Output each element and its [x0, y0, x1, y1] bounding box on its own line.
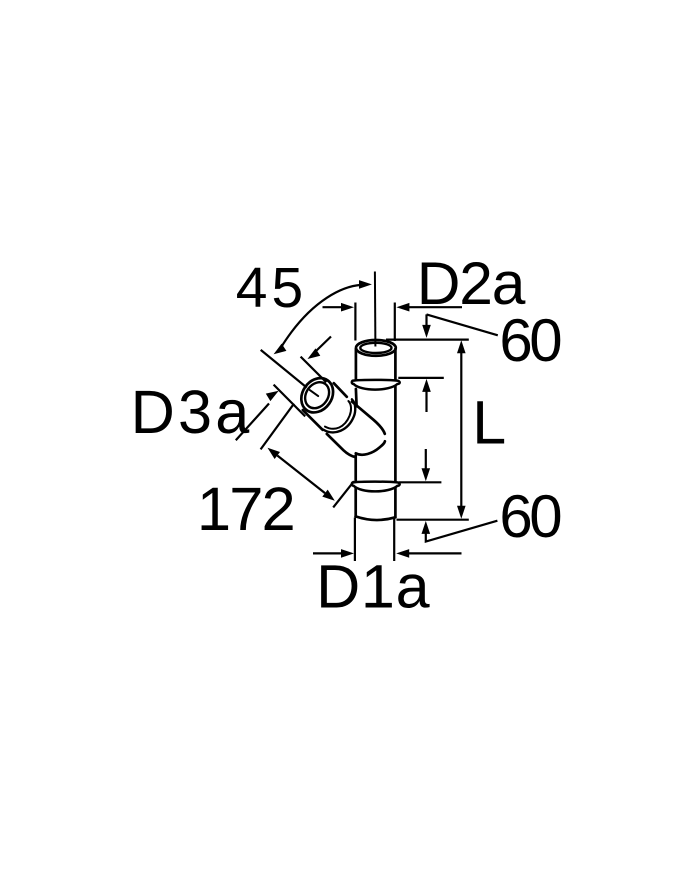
svg-text:L: L [472, 389, 506, 457]
main pipe left edge lower segment [354, 456, 357, 517]
172 upper arrowhead pointing up-left [268, 448, 281, 459]
D3a upper extension line [301, 357, 327, 383]
D1a right extension line [393, 519, 395, 562]
60 top upper arrow shaft and leader [427, 314, 498, 335]
D3a lower extension line B [274, 385, 306, 417]
D1a right arrowhead pointing left [396, 549, 409, 558]
top collar band [352, 380, 400, 390]
svg-text:60: 60 [499, 483, 561, 550]
junction weld smile curve [356, 441, 385, 454]
main pipe left edge upper segment [355, 349, 358, 407]
60 bottom lower arrow shaft and leader [426, 521, 498, 542]
svg-text:60: 60 [499, 307, 561, 374]
svg-text:172: 172 [197, 475, 294, 544]
main pipe top opening inner ellipse [360, 343, 391, 353]
svg-text:45: 45 [236, 256, 307, 320]
D2a right arrow shaft [408, 306, 462, 308]
60 bottom upper arrow shaft [425, 449, 427, 470]
172 lower extension line [333, 481, 354, 507]
vertical centerline above pipe [374, 272, 377, 347]
D1a right arrow shaft [409, 552, 462, 554]
172 upper extension line [261, 404, 294, 450]
45 arc top arrowhead pointing east [359, 280, 372, 289]
60 top upper arrowhead pointing down [422, 325, 431, 338]
pipe bottom level extension line [397, 519, 469, 521]
branch lower edge merging into pipe left edge [327, 434, 356, 457]
D3a upper arrow shaft [316, 337, 332, 352]
svg-text:D3a: D3a [131, 378, 253, 446]
D2a left extension line above pipe [354, 303, 356, 341]
svg-text:D1a: D1a [316, 552, 430, 620]
branch lower edge segment from rim [303, 410, 323, 430]
D3a leader arrowhead pointing up-right [266, 391, 279, 401]
172 lower arrowhead pointing down-right [322, 490, 335, 501]
D1a left arrow shaft [313, 552, 342, 554]
D3a upper arrowhead pointing down-left [308, 348, 321, 359]
branch end outer ellipse [295, 372, 340, 419]
main pipe bottom rim [356, 516, 396, 520]
172 dimension line [277, 456, 325, 494]
D1a left arrowhead pointing right [341, 549, 354, 558]
branch end inner ellipse [300, 378, 334, 413]
45 arc bottom arrowhead pointing southwest [274, 344, 287, 355]
branch bead inner arc [325, 401, 351, 429]
D2a right arrowhead [396, 303, 409, 312]
pipe top level extension line [386, 339, 469, 341]
60 bottom lower arrowhead pointing up [422, 521, 431, 534]
L bottom arrowhead pointing down [457, 506, 466, 519]
bottom collar band [352, 482, 400, 492]
main pipe right edge [394, 349, 397, 518]
D2a left arrowhead [341, 303, 354, 312]
D2a left arrow shaft [323, 306, 344, 308]
top collar level extension line [398, 377, 444, 379]
branch upper edge segment to junction with end curve [352, 402, 385, 434]
60 top lower arrowhead pointing up [422, 379, 431, 392]
60 bottom upper arrowhead pointing down [422, 468, 431, 481]
L dimension line [460, 352, 462, 507]
D1a left extension line [354, 518, 356, 562]
45 degree dimension arc [281, 285, 361, 348]
branch centerline tick at ellipse center [310, 390, 318, 396]
main pipe top opening outer ellipse [356, 340, 396, 356]
60 top lower arrow shaft [425, 391, 427, 412]
branch bead outer arc [323, 399, 355, 432]
D2a right extension line above pipe [394, 303, 396, 342]
branch upper edge segment from rim [334, 383, 347, 397]
L top arrowhead pointing up [457, 340, 466, 353]
branch centerline extension line A [261, 350, 307, 388]
bottom collar level extension line [399, 481, 442, 483]
D3a leader arrow shaft [236, 404, 269, 441]
